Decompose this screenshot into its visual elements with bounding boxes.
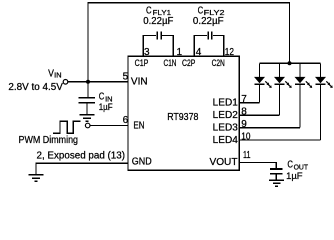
wire top rail left vertical [87,3,89,82]
pin 9 LED3 [213,119,248,134]
pin 12 C2N [212,47,235,68]
node VIN junction dot [86,80,90,84]
svg-text:1: 1 [177,47,183,58]
PWM waveform symbol [53,121,80,133]
pin 10 LED4 [213,131,251,146]
svg-text:RT9378: RT9378 [167,112,199,123]
wire VOUT to COUT [239,163,276,170]
capacitor CFLY1 [143,5,173,56]
svg-text:5: 5 [123,72,129,83]
LED D4 [315,63,333,140]
capacitor COUT [270,160,309,182]
terminal VIN circle [63,80,68,85]
node LED bus junction dot [288,61,292,65]
svg-text:0.22µF: 0.22µF [193,16,224,27]
svg-text:2.8V to 4.5V: 2.8V to 4.5V [8,82,63,93]
svg-text:4: 4 [196,47,202,58]
wire pin 8 to LED2 [239,114,280,116]
svg-text:3: 3 [144,47,150,58]
ground at exposed pad [29,175,44,181]
LED D1 [254,63,272,102]
LED D3 [295,63,313,127]
wire pin 9 to LED3 [239,127,301,129]
svg-text:IN: IN [54,72,61,79]
svg-text:1µF: 1µF [99,102,113,112]
ground below CIN [80,115,95,122]
svg-text:C2N: C2N [212,58,225,68]
wire EN to pin 6 [90,125,128,127]
svg-text:7: 7 [241,94,247,105]
svg-text:2, Exposed pad (13): 2, Exposed pad (13) [37,150,126,161]
svg-text:PWM Dimming: PWM Dimming [19,135,79,146]
capacitor CFLY2 [193,5,225,56]
IC U1 RT9378 charge-pump LED driver [128,56,239,170]
node VIN label [8,68,63,93]
svg-text:11: 11 [243,150,251,161]
pin 1 C1N [164,47,183,68]
svg-text:9: 9 [241,119,247,130]
svg-text:VOUT: VOUT [210,157,238,168]
svg-text:C1N: C1N [164,58,177,68]
svg-text:LED3: LED3 [213,123,239,134]
pin 8 LED2 [213,107,248,122]
pin 4 C2P [182,47,202,68]
terminal EN circle [85,123,90,128]
pin 11 VOUT [210,150,251,168]
wire pin 7 to LED1 [239,102,260,104]
svg-text:C: C [198,5,204,16]
svg-text:12: 12 [225,47,235,58]
svg-text:C2P: C2P [182,58,195,68]
LED D2 [274,63,292,115]
svg-text:EN: EN [133,121,144,132]
pin 3 C1P [135,47,150,68]
pin 6 EN [123,115,145,132]
svg-text:8: 8 [241,107,247,118]
wire LED anode bus [260,62,321,64]
svg-text:GND: GND [132,157,152,168]
svg-text:10: 10 [241,131,251,142]
svg-text:LED2: LED2 [213,110,239,121]
capacitor CIN [79,91,114,114]
svg-text:LED4: LED4 [213,135,239,146]
svg-text:6: 6 [123,115,129,126]
ground below COUT [269,180,284,186]
svg-text:1µF: 1µF [286,171,303,182]
pin 7 LED1 [213,94,248,109]
svg-text:0.22µF: 0.22µF [143,16,173,27]
svg-text:LED1: LED1 [213,98,239,109]
svg-text:C: C [146,5,152,16]
wire VIN to pin 5 [68,81,128,83]
wire CIN branch [87,82,89,98]
svg-text:C: C [287,160,293,171]
wire top rail horizontal [87,2,290,4]
svg-text:VIN: VIN [131,77,148,88]
wire pin 10 to LED4 [239,139,321,141]
pin 5 VIN [123,72,148,88]
svg-text:C: C [99,91,105,102]
pin 2 GND [132,157,152,168]
wire top rail right vertical [289,3,291,64]
wire GND to ground [36,163,128,174]
svg-text:C1P: C1P [135,58,149,68]
